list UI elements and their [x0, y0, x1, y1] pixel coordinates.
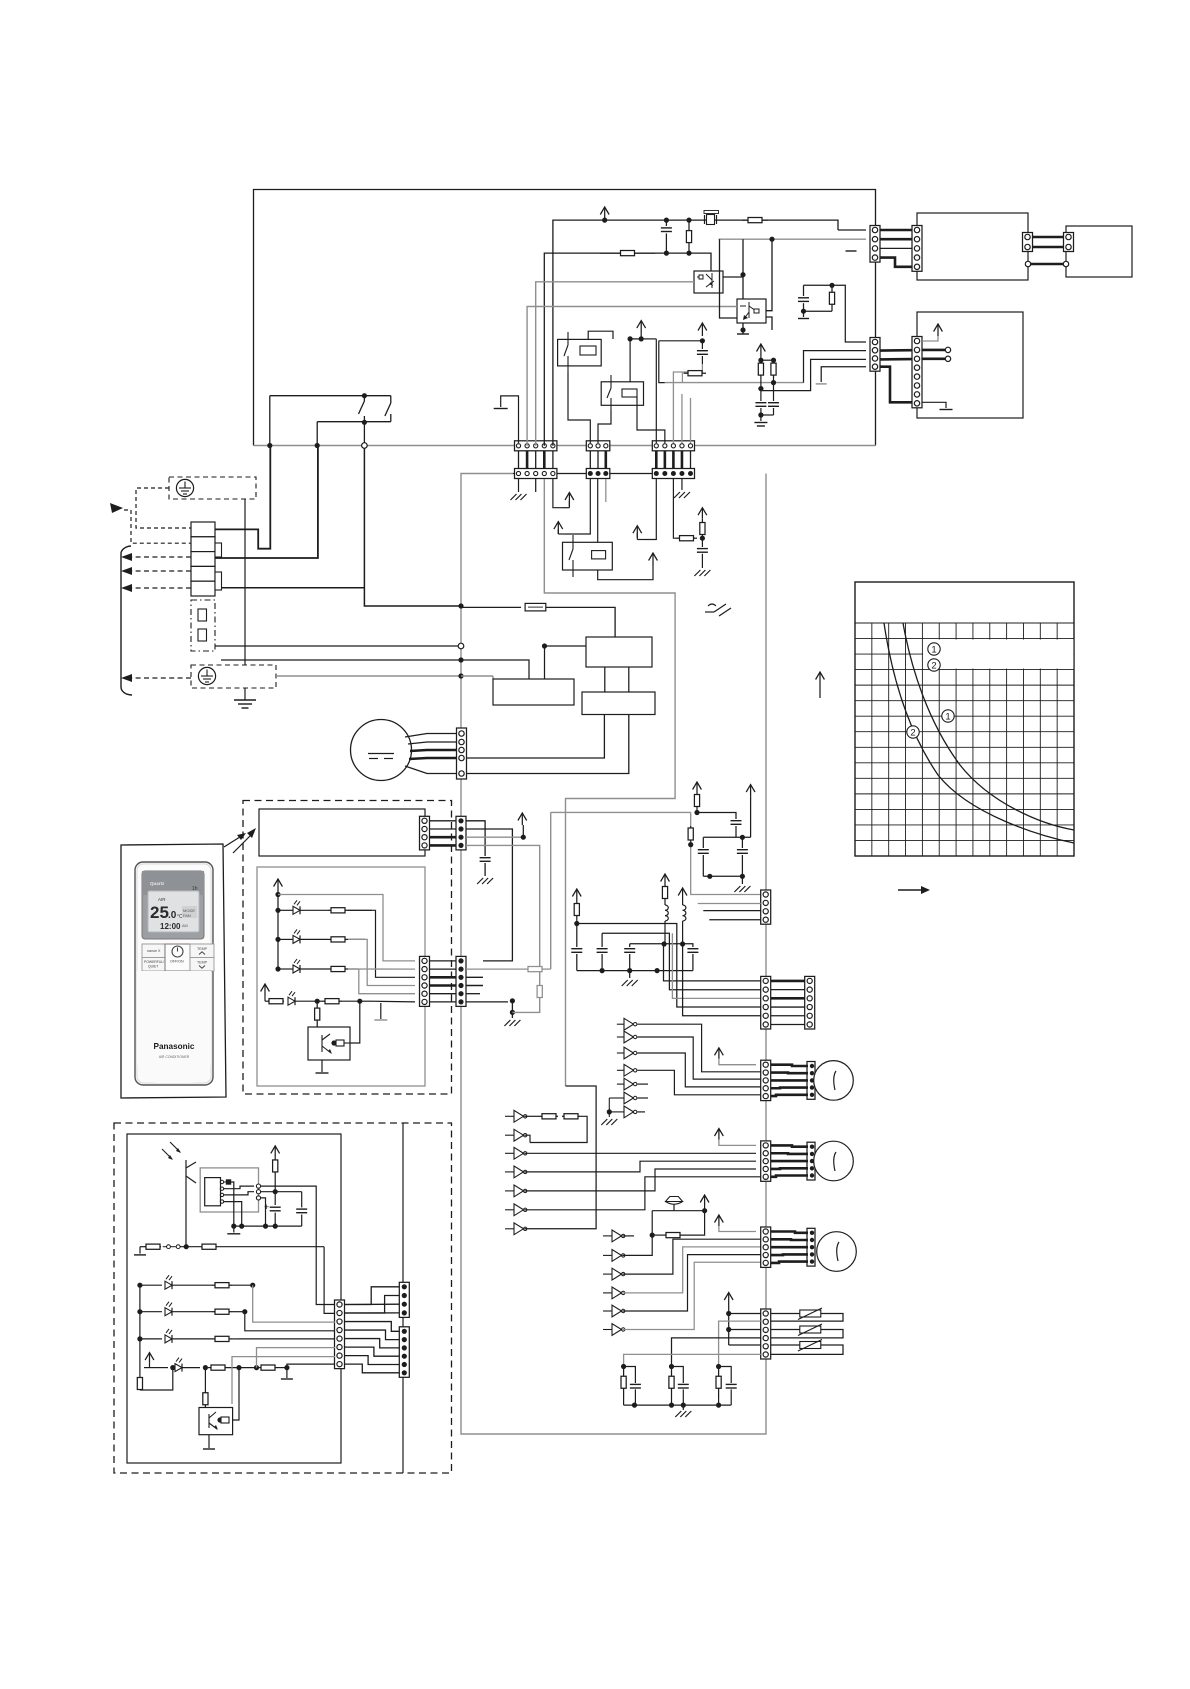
connector CN-B row2: [586, 469, 610, 479]
stm power arrow 3: [715, 1215, 757, 1232]
LED D2: [278, 929, 365, 943]
thermal switch FY: [705, 604, 731, 616]
CN-R8 pin3 wire: [253, 1285, 335, 1322]
transistor Q2: [199, 1408, 233, 1435]
coil L1: [661, 874, 670, 944]
terminal link open wires: [1025, 261, 1068, 266]
stm2 wires: [771, 1145, 808, 1176]
display net pin1 cap: [466, 821, 493, 884]
relay RY2: [601, 375, 643, 411]
earth symbol (top): [176, 479, 193, 496]
dashed field wire 1: [121, 553, 191, 561]
second rail wire: [544, 251, 711, 446]
connector CN-PM out: [1023, 233, 1033, 252]
field wiring arrow (top): [110, 503, 123, 513]
buzzer wiring: [650, 1195, 709, 1238]
IR receiver module box: [200, 1168, 258, 1212]
CN-R8 pin4 wire: [245, 1312, 335, 1331]
Q1 base resistor: [315, 999, 320, 1027]
cap C-relay: [673, 341, 708, 443]
CN-R8 pin7 wire: [232, 1357, 335, 1404]
svg-text:OFF/ON: OFF/ON: [170, 960, 184, 964]
receiver cap C1: [264, 1202, 281, 1229]
fan motor M1: [351, 720, 412, 781]
IR module pin4 net: [224, 1202, 245, 1229]
fan box wires: [880, 350, 912, 402]
svg-text:nanoe X: nanoe X: [147, 949, 161, 953]
svg-text:Quartz: Quartz: [150, 881, 165, 886]
indicator row wires to CN-E: [278, 895, 415, 1021]
stm3 motor: [817, 1232, 857, 1272]
remote lcd: [148, 891, 199, 932]
chart y-axis arrow: [816, 672, 825, 698]
connector CN-PW mate: [912, 226, 922, 272]
legend mark 1: [928, 643, 940, 656]
IR beam arrows: [162, 1142, 181, 1160]
Q2 wiring: [203, 1368, 239, 1449]
display net pin2: [466, 829, 512, 961]
ground near CN-A: [494, 396, 519, 443]
arrow below CN-B: [554, 479, 590, 534]
power module to terminal box wires: [1033, 237, 1064, 247]
filter rail B: [602, 933, 761, 990]
power arrow P2: [572, 889, 581, 924]
receiver unit dashed box (bottom left): [114, 1123, 452, 1473]
filter caps: [571, 924, 693, 987]
curve label 1: [942, 710, 954, 723]
RY3 out arrow: [598, 553, 658, 580]
relay power arrows: [628, 321, 707, 344]
rx LED 1: [140, 1275, 255, 1289]
gray bus to relay area: [659, 341, 706, 383]
IR signal arrow to display: [233, 828, 256, 853]
receiver out net: [261, 1198, 269, 1229]
connector CN-D filled: [456, 816, 466, 850]
net dark x697 to cap chain: [697, 813, 742, 838]
connector CN-X2: [805, 976, 815, 1029]
ground stub CN-PW: [846, 250, 857, 252]
CN-Z pin wires: [698, 860, 761, 920]
PC2 emitter ground: [737, 323, 749, 334]
arrow below CN-A: [553, 479, 562, 508]
gray long wire y382: [665, 380, 804, 385]
display power arrow: [466, 813, 527, 961]
chart x-axis arrow: [898, 886, 930, 894]
svg-text:FAN: FAN: [183, 913, 191, 918]
indicator power arrow: [274, 879, 283, 972]
stm2 motor: [814, 1141, 854, 1181]
stm power arrow 1: [715, 1048, 757, 1065]
th bias wires: [729, 1314, 761, 1346]
remote display unit dashed box: [243, 801, 452, 1095]
RY3 coil feed: [597, 479, 599, 542]
connector CN-FM: [457, 728, 467, 779]
connector CN-PW (on PCB edge): [870, 226, 880, 263]
CN-E stubs right: [466, 977, 483, 993]
driver column B top pair: [505, 1110, 587, 1143]
cap branch 1: [698, 837, 713, 879]
relay coil wiring: [568, 331, 665, 443]
CN-R8 pin8 wire: [287, 1364, 335, 1368]
resistor R-osc: [742, 218, 768, 223]
optocoupler PC1: [694, 271, 723, 293]
stm power arrow 2: [715, 1129, 757, 1146]
earth symbol (bottom): [198, 667, 215, 684]
filter rail C: [630, 941, 699, 970]
filter rail A: [574, 921, 761, 1007]
fan box ground: [922, 402, 953, 409]
gray wire to CN-PW pin2: [719, 237, 867, 242]
connector CN-C row2: [652, 469, 694, 479]
fan motor leads: [405, 734, 456, 774]
wire to CN-X1 pin3: [672, 933, 760, 998]
connector CN-Z: [761, 890, 771, 924]
svg-text:QUIET: QUIET: [148, 965, 158, 969]
receiver link wires: [345, 1287, 400, 1373]
fuse F1a: [198, 609, 207, 621]
svg-text:1: 1: [931, 644, 936, 655]
ground below CN-C: [674, 479, 690, 498]
stm1 motor: [814, 1061, 854, 1101]
dashed earth lead: [136, 488, 191, 528]
stm3 mini connector: [807, 1228, 815, 1266]
transistor Q1: [308, 1027, 350, 1060]
remote lower body: [137, 971, 211, 1083]
remote lcd text: [150, 881, 198, 931]
rx LED rail: [137, 1283, 142, 1377]
connector CN-D open: [420, 816, 430, 850]
svg-text:AM: AM: [182, 924, 188, 928]
capacitor C-top: [661, 220, 672, 253]
wire CN-FB p3: [761, 359, 866, 390]
indicator PCB box (gray): [257, 867, 425, 1086]
RC cluster V caps: [754, 378, 779, 426]
IR module pin3 net: [224, 1192, 254, 1195]
IR phototransistor: [186, 1160, 196, 1247]
LED D4 row: [261, 984, 372, 1005]
power switch S1: [270, 393, 391, 425]
power arrow P1: [693, 782, 702, 815]
connector CN-A row1: [515, 441, 557, 451]
svg-text:AIR CONDITIONER: AIR CONDITIONER: [159, 1055, 190, 1059]
snubber cap right: [798, 285, 809, 314]
connector CN-B row1: [586, 441, 610, 451]
connector CN-STM2: [761, 1141, 771, 1181]
connector CN-R8: [335, 1300, 345, 1369]
wires PCB edge to CN-FB: [766, 473, 875, 475]
wire N to terminal: [215, 422, 320, 558]
CN-R8 pin5 wire: [238, 1338, 335, 1340]
svg-text:.0: .0: [168, 910, 177, 921]
thermistor TH3: [771, 1340, 843, 1355]
connector CN-FB mate: [912, 337, 922, 408]
fuse F2: [461, 603, 615, 637]
svg-text:+: +: [264, 1202, 269, 1212]
IR module IC pins: [220, 1180, 223, 1203]
connector CN-STM3: [761, 1227, 771, 1267]
thermistor TH2: [771, 1324, 843, 1338]
driver column A: [609, 1018, 637, 1117]
rail y876 and ground: [703, 876, 750, 892]
gray drop x690: [688, 812, 761, 894]
receiver unit right bus line: [402, 1123, 404, 1473]
dashed field wire 4: [121, 674, 191, 682]
chart curve 2: [884, 623, 1074, 843]
Q1 wiring: [316, 1001, 360, 1073]
connector CN-TB in: [1064, 233, 1074, 252]
rc group 1: [621, 1364, 641, 1405]
wire CN-FB p2: [804, 351, 867, 383]
connector CN-X1: [761, 976, 771, 1029]
gray wire A2 to PC2: [527, 307, 737, 446]
connector CN-C row1: [652, 441, 694, 451]
field wire brace: [121, 546, 132, 695]
PC1 PC2 link wires: [720, 239, 773, 330]
connector CN-TH: [761, 1309, 771, 1359]
CN-X wires: [771, 981, 805, 1025]
svg-text:2: 2: [931, 660, 936, 671]
arrow below CN-C1: [633, 479, 656, 540]
stm3 wires: [771, 1232, 808, 1263]
wire CN-FB p4: [816, 367, 866, 384]
power module wires: [880, 230, 912, 267]
stm1 mini connector: [807, 1062, 815, 1100]
CN-E filled: [456, 956, 466, 1006]
wire CN-FM pin5 to logic: [467, 714, 629, 774]
receiver vcc net: [261, 1192, 302, 1208]
svg-text:1h: 1h: [192, 886, 198, 892]
fan motor box (right): [917, 312, 1023, 418]
display net pin4: [466, 845, 540, 985]
remote display bezel: [142, 871, 204, 939]
cap branch 2: [737, 837, 748, 879]
display unit box: [259, 809, 425, 856]
buzzer BZ: [666, 1197, 683, 1211]
wire earth box to node 676: [276, 673, 493, 679]
display link wires: [430, 821, 457, 846]
stm2 mini connector: [807, 1142, 815, 1180]
remote body: [135, 862, 213, 1085]
legend mark 2: [928, 659, 940, 672]
svg-text:TEMP: TEMP: [197, 947, 208, 951]
wire L to terminal: [215, 396, 272, 549]
thermistor power arrow: [724, 1293, 733, 1346]
remote buttons: [142, 944, 214, 971]
terminal box right: [1066, 226, 1132, 277]
chart curve 1: [903, 623, 1074, 830]
rail y837: [703, 785, 755, 840]
gray wire A1 to PC1: [536, 282, 694, 446]
curve label 2: [907, 726, 919, 739]
wire CN-FM pin4 to logic: [467, 714, 604, 758]
gray rail y812: [466, 812, 691, 971]
svg-text:1: 1: [945, 711, 950, 722]
receiver signal to CN-R8 pin1: [261, 1186, 335, 1304]
earth terminal dashed box (top): [169, 477, 256, 499]
IR module pin2 net: [224, 1186, 254, 1189]
dashed lead 2: [124, 510, 191, 543]
wire rail to CN-PW pin1: [838, 229, 866, 231]
driver column B: [505, 1147, 527, 1234]
receiver power arrow: [271, 1146, 280, 1194]
connector CN-A row2: [515, 469, 557, 479]
svg-text:POWERFUL/: POWERFUL/: [144, 960, 164, 964]
power module box: [917, 213, 1028, 280]
wire L1 to CN-X1 pin1: [664, 944, 761, 981]
rc bottom rail: [624, 1403, 732, 1418]
receiver gnd rail: [227, 1226, 301, 1234]
fan box open wire ends: [922, 347, 951, 361]
receiver cap C2: [296, 1209, 307, 1226]
optocoupler PC2: [737, 299, 766, 323]
remote control outer box: [121, 844, 226, 1098]
driver C out wires: [622, 1235, 760, 1329]
wire L2 to CN-X1 pin5: [683, 944, 761, 1016]
logic block 1: [586, 637, 652, 667]
snubber wiring: [798, 285, 866, 342]
main control PCB outline (top box): [254, 190, 876, 446]
svg-text:25: 25: [150, 903, 169, 922]
CN-R8 pin6 wire: [257, 1348, 336, 1368]
wire pairs between connector rows: [519, 451, 691, 468]
block interconnects: [461, 479, 629, 692]
receiver PCB inner box: [127, 1134, 341, 1463]
power rail arrow (top): [600, 207, 609, 223]
svg-text:TEMP: TEMP: [197, 961, 208, 965]
main PCB bottom bus line: [254, 445, 876, 447]
CN-E link wires: [430, 961, 457, 1002]
display net pin3: [466, 835, 526, 840]
relay RY3: [563, 535, 613, 577]
driver A ground: [601, 1098, 617, 1125]
connector CN-STM1: [761, 1060, 771, 1100]
ground below CN-A: [511, 479, 527, 500]
RC to ground branch: [673, 479, 710, 576]
dashed field wire 2: [121, 567, 191, 575]
relay RY1: [558, 332, 602, 372]
fan box power arrow: [922, 324, 942, 341]
earth terminal dashed box (bottom): [191, 665, 276, 688]
CN-E pin6 ground net: [466, 985, 542, 1026]
rx LED 3: [140, 1329, 238, 1343]
RC cluster V arrow: [757, 344, 777, 363]
driver B out wires: [524, 1153, 760, 1210]
driver column C: [603, 1230, 625, 1335]
rx LED 2: [140, 1302, 248, 1316]
coil L2: [678, 888, 687, 944]
driver A out wires: [637, 1024, 760, 1112]
gray bus from CN-A down: [544, 479, 675, 1086]
connector CN-R6f: [399, 1327, 409, 1378]
thermistor TH1: [771, 1308, 843, 1321]
chassis ground (earth): [234, 688, 256, 708]
CN-E open: [420, 956, 430, 1006]
LED D3: [278, 959, 358, 973]
driver bus feed: [524, 1086, 596, 1229]
wire switch to node: [215, 422, 463, 608]
svg-text:AIR: AIR: [158, 897, 166, 902]
fuse holder dash-dot box: [191, 600, 215, 651]
crystal X1: [704, 211, 719, 225]
connector CN-R4f: [399, 1282, 409, 1317]
rc group 3: [716, 1364, 737, 1405]
th return pin6: [624, 1354, 761, 1366]
terminal block: [191, 522, 222, 596]
RC cluster V resistors: [758, 360, 776, 378]
power arrow 1: [565, 493, 574, 507]
top rail wire: [553, 218, 838, 446]
svg-text:Panasonic: Panasonic: [154, 1042, 195, 1051]
resistor R-top: [600, 251, 655, 256]
th return pin2: [719, 1321, 761, 1366]
resistor R-vert top: [686, 220, 691, 253]
rx LED 4 row: [144, 1353, 293, 1379]
IR module IC: [205, 1178, 221, 1206]
logic block 2: [493, 679, 574, 705]
remote signal arrow: [224, 833, 246, 847]
performance chart grid: [855, 582, 1074, 856]
IR module edge pins: [256, 1184, 260, 1200]
svg-text:2: 2: [910, 727, 915, 738]
snubber resistor right: [829, 283, 834, 312]
wire fuse to node 646: [215, 643, 547, 649]
indoor unit main box (center): [461, 474, 766, 1435]
rc group 2: [669, 1364, 689, 1405]
logic block 3: [582, 692, 655, 715]
fuse F1b: [198, 629, 207, 641]
dashed field wire 3: [121, 584, 191, 592]
wire fuse to node 660: [221, 657, 464, 662]
connector CN-FB (on PCB edge): [870, 338, 880, 372]
rx LED rail resistor: [137, 1368, 173, 1390]
earth link wire: [244, 499, 246, 665]
receiver out row: [134, 1244, 335, 1313]
svg-text:12:00: 12:00: [160, 922, 181, 931]
IR module pin1 net: [224, 1180, 237, 1229]
stm1 wires: [771, 1065, 808, 1096]
th return pin4: [672, 1338, 761, 1367]
LED D1: [278, 900, 372, 914]
